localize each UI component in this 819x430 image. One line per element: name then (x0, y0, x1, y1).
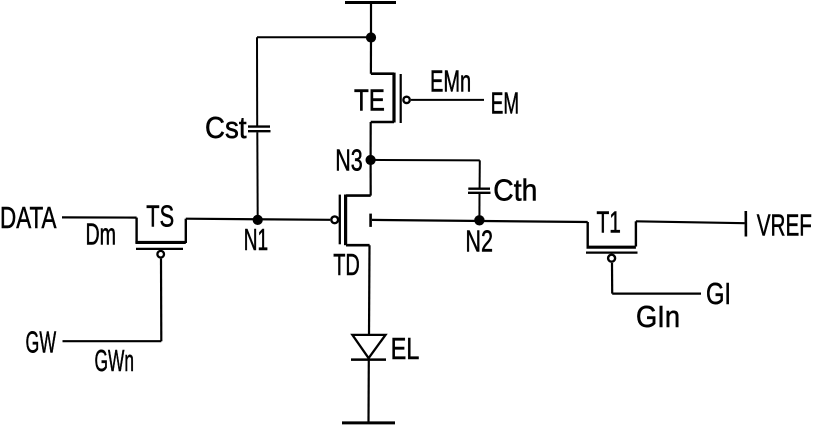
svg-text:GW: GW (26, 325, 57, 360)
wire EL to ground (367, 359, 369, 422)
transistor T1 channel bar (587, 246, 636, 249)
wire N3 to Cth (371, 159, 480, 162)
transistor TE channel bar (392, 73, 395, 123)
svg-text:N2: N2 (465, 224, 493, 259)
wire T1 gate vertical (611, 263, 613, 294)
svg-text:GI: GI (706, 276, 731, 311)
transistor T1 right electrode (635, 221, 637, 246)
ground bar (342, 421, 395, 424)
wire DATA to TS (62, 216, 137, 218)
transistor TD gate bar (339, 195, 341, 245)
svg-text:N3: N3 (335, 143, 363, 178)
svg-text:TS: TS (146, 199, 174, 234)
wire Cth lower lead to N2 (478, 194, 480, 220)
wire T1 gate to GI (612, 293, 701, 295)
transistor TS gate bubble (157, 251, 164, 258)
svg-text:Cst: Cst (205, 110, 247, 145)
diode EL cathode bar (351, 358, 386, 361)
wire Cth upper lead (479, 160, 481, 187)
transistor TE drain wire from junction (370, 38, 372, 74)
svg-text:Dm: Dm (86, 216, 117, 251)
wire Cst upper lead (256, 37, 258, 125)
wire T1 to VREF (636, 221, 745, 223)
transistor TS gate bar (136, 248, 183, 250)
capacitor Cth bottom plate (468, 192, 491, 194)
svg-text:GIn: GIn (636, 299, 680, 334)
svg-text:GWn: GWn (95, 343, 135, 378)
wire TD drain from N3 (370, 160, 372, 196)
transistor TE gate bubble (403, 97, 409, 103)
wire TE source to N3 (370, 122, 372, 160)
node junction dot at VDD branch (366, 32, 376, 42)
svg-text:Cth: Cth (493, 172, 537, 207)
capacitor Cst bottom plate (248, 130, 271, 132)
svg-text:EM: EM (491, 86, 519, 121)
transistor TD gate bubble (331, 216, 338, 223)
transistor T1 gate bar (586, 252, 638, 254)
wire Cst lower lead to N1 (256, 132, 258, 219)
transistor TE top electrode (371, 72, 394, 75)
transistor TS channel bar (135, 241, 185, 244)
node N3 dot (366, 155, 376, 165)
terminal VREF bar (744, 211, 747, 237)
transistor TD channel bar (344, 195, 347, 246)
node N2 dot (474, 215, 484, 225)
transistor TE bottom electrode (371, 121, 394, 124)
capacitor Cth top plate (468, 187, 490, 189)
svg-text:T1: T1 (597, 204, 621, 239)
svg-text:EMn: EMn (430, 63, 471, 98)
svg-text:EL: EL (391, 331, 420, 366)
svg-text:N1: N1 (244, 222, 268, 257)
wire VDD to junction (370, 3, 372, 38)
wire TE gate to EM (411, 99, 484, 101)
wire N2 run TD tick to T1 (372, 220, 588, 222)
wire TS to N1 to TD gate (186, 219, 330, 220)
svg-text:DATA: DATA (0, 200, 57, 235)
power rail VDD bar (345, 1, 396, 4)
node N1 dot (253, 215, 263, 225)
transistor T1 gate bubble (608, 255, 615, 262)
svg-text:TD: TD (333, 247, 360, 282)
transistor TE gate bar (400, 74, 402, 123)
capacitor Cst top plate (248, 125, 270, 127)
transistor TD bottom electrode (346, 244, 370, 247)
svg-text:TE: TE (354, 83, 385, 118)
transistor T1 left electrode (587, 222, 589, 246)
transistor TD top electrode (346, 194, 371, 197)
transistor TS left electrode (135, 218, 137, 243)
transistor TS right electrode (185, 219, 187, 243)
transistor TD body tick (369, 214, 372, 227)
wire TD source to EL (368, 245, 371, 335)
wire junction to Cst top (257, 36, 371, 38)
wire TS gate to GW (63, 340, 162, 342)
diode EL triangle (352, 335, 385, 358)
svg-text:VREF: VREF (757, 208, 812, 243)
wire TS gate vertical (160, 259, 163, 342)
